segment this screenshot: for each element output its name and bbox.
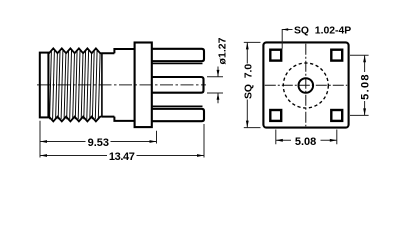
pin top-left [270, 50, 281, 61]
bottom leg [152, 109, 204, 121]
nose rectangle [40, 53, 49, 118]
threads top zigzag [48, 48, 102, 53]
center pin circle [299, 78, 314, 93]
pin bottom-left [270, 110, 281, 121]
svg-text:5.08: 5.08 [360, 73, 372, 100]
SQ 1.02-4P leader [282, 30, 292, 49]
svg-text:SQ 7.0: SQ 7.0 [243, 64, 254, 99]
face view crosshair [265, 84, 347, 86]
face view square flange [263, 42, 348, 127]
centerline left view [37, 84, 206, 86]
undercut groove [102, 53, 115, 116]
13.47 extension line right [203, 124, 205, 158]
threads bottom zigzag [48, 117, 102, 122]
9.53 dimension line [40, 141, 157, 143]
right 5.08 dimension [350, 55, 369, 115]
thread right edge [101, 53, 103, 116]
insulator between legs [152, 64, 203, 107]
svg-text:SQ 1.02-4P: SQ 1.02-4P [294, 26, 351, 37]
svg-text:5.08: 5.08 [295, 136, 316, 148]
svg-text:ø1.27: ø1.27 [217, 37, 229, 64]
dia 1.27 extension lines [207, 77, 223, 93]
bottom 5.08 dimension [276, 130, 337, 145]
pin top-right [331, 50, 342, 61]
SQ 7.0 dimension [244, 42, 261, 127]
svg-text:9.53: 9.53 [88, 137, 109, 149]
center pin [152, 77, 204, 93]
dia 1.27 arrows [217, 67, 219, 104]
svg-text:13.47: 13.47 [109, 151, 135, 163]
9.53 extension lines [40, 121, 157, 158]
13.47 dimension line [40, 155, 204, 157]
pin bottom-right [331, 110, 342, 121]
thread left edge [47, 53, 49, 116]
flange side view [135, 43, 152, 128]
top leg [152, 49, 204, 61]
body section [114, 49, 134, 121]
dashed circle [283, 63, 328, 108]
thread helix lines [50, 51, 101, 120]
